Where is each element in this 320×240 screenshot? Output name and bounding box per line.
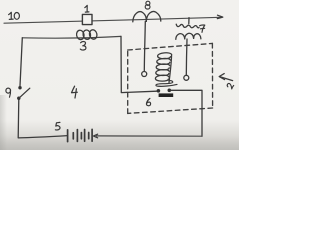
label 6 (146, 98, 150, 105)
label 7 (200, 25, 205, 32)
label 3 (80, 41, 86, 50)
wire switch up to secondary corner (20, 38, 22, 86)
wire from inductor 8 down into relay box (144, 21, 145, 71)
wire from transformer 7 down into relay box (185, 39, 188, 75)
contact circle (right, under transformer 7) (184, 75, 189, 80)
switch 9 (17, 86, 30, 100)
wire from left vertical into contacts (121, 36, 157, 92)
contacts 6 (two dots and bar) (157, 89, 174, 98)
label 8 (145, 1, 150, 9)
inductor 8 (two humps on top rail) (133, 11, 161, 21)
label 4 (72, 86, 78, 98)
wire secondary run (corner at left, to right corner) (22, 36, 121, 38)
relay coil tail flourish over contact (156, 81, 177, 87)
component 1 (box on top rail) (82, 14, 92, 24)
relay coil (spiral) (155, 53, 171, 83)
contact circle (left, under inductor 8) (142, 72, 147, 77)
wire top rail (net 10) (4, 15, 223, 23)
wire from contacts to right side and down to bottom rail (171, 90, 202, 136)
label 5 (55, 122, 60, 130)
relay box (dashed enclosure, item 2) (128, 43, 213, 113)
wire bottom rail (97, 135, 203, 137)
label 2 (rotated) (226, 82, 234, 89)
label 1 (85, 5, 89, 12)
transformer 7 (upper winding with stub, lower humps) (176, 18, 201, 40)
inductor 3 (76, 29, 98, 40)
arrowhead at battery (94, 134, 98, 138)
battery 5 (68, 129, 93, 141)
node label 10 (9, 12, 20, 19)
pointer arrow to relay box (219, 74, 232, 81)
wire battery to left corner and up to switch (18, 98, 67, 137)
label 9 (6, 88, 11, 97)
